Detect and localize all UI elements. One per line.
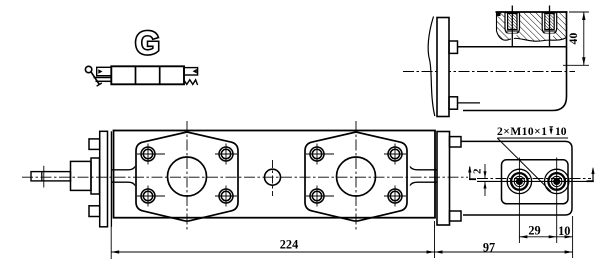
- svg-text:10: 10: [555, 126, 567, 138]
- svg-text:29: 29: [528, 224, 540, 238]
- svg-text:G: G: [135, 25, 160, 61]
- svg-text:2×M10×1: 2×M10×1: [497, 126, 547, 138]
- svg-text:97: 97: [483, 241, 495, 255]
- svg-text:2: 2: [471, 168, 483, 174]
- svg-text:10: 10: [558, 224, 570, 238]
- svg-text:224: 224: [280, 238, 298, 252]
- svg-text:40: 40: [566, 33, 580, 45]
